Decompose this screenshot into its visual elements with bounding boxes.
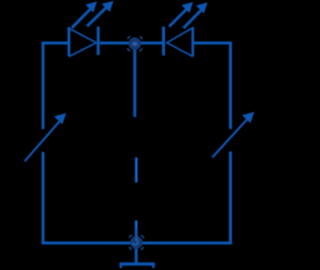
wire top-middle-left (LED D1 cathode to node A) bbox=[100, 42, 130, 45]
ground (left tick) bbox=[120, 265, 123, 269]
ground (bar) bbox=[120, 262, 155, 265]
node A (top junction dot) bbox=[126, 35, 144, 53]
node B (bottom junction dot) bbox=[128, 234, 145, 251]
LED D2 (emitting diode, pointing left) bbox=[164, 27, 193, 57]
LED D2 light arrow 1 bbox=[169, 2, 193, 27]
wire center lower (bright stub into node B) bbox=[135, 221, 138, 232]
wire right lower bbox=[229, 152, 232, 245]
wire right upper bbox=[229, 42, 232, 130]
wire left upper bbox=[42, 42, 45, 130]
ground (stem) bbox=[135, 243, 138, 263]
wire center lower into node B bbox=[135, 229, 138, 243]
wire center middle (bright segment) bbox=[135, 158, 138, 183]
LED D2 light arrow 2 bbox=[183, 2, 207, 28]
wire bottom bbox=[42, 242, 233, 245]
variable arrow right (crossing right wire gap) bbox=[212, 112, 254, 158]
variable arrow left (crossing left wire gap) bbox=[25, 113, 67, 161]
LED D1 (emitting diode, pointing right) bbox=[69, 27, 99, 57]
ground (right tick) bbox=[152, 265, 155, 269]
LED D1 light arrow 2 bbox=[87, 1, 114, 26]
wire center upper (node A down) bbox=[133, 44, 136, 117]
wire top-right (LED D2 anode to top-right corner) bbox=[194, 42, 231, 45]
LED D1 light arrow 1 bbox=[72, 2, 97, 28]
wire top-middle-right (node A to LED D2 cathode) bbox=[140, 42, 162, 45]
wire left lower bbox=[42, 152, 45, 245]
wire top-left (from top-left corner to LED D1 anode) bbox=[42, 42, 69, 45]
